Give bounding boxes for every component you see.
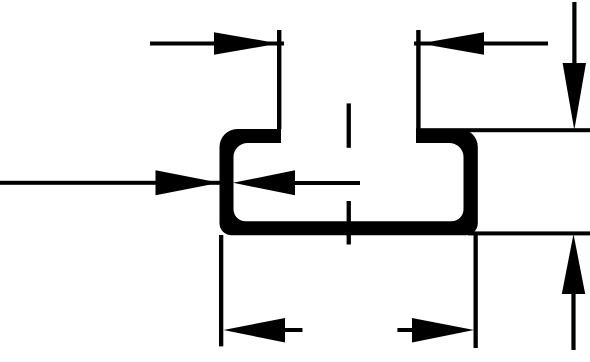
extension line bottom-right <box>474 235 478 348</box>
dimension line right vertical upper <box>572 2 576 64</box>
arrowhead bottom-left (points left) <box>224 318 286 343</box>
dimension tail bottom-right <box>397 328 412 332</box>
wall thickness dimension tail right <box>295 181 360 185</box>
arrowhead top-left (points right) <box>214 32 279 55</box>
dimension line top-right <box>414 42 548 46</box>
arrowhead right upper (points down) <box>563 63 586 130</box>
dimension tail bottom-left <box>285 328 303 332</box>
arrowhead at wall inner face (points left) <box>233 170 295 195</box>
arrowhead top-right (points left) <box>420 32 484 55</box>
extension line right lip <box>416 30 420 129</box>
C-profile cross-section <box>220 129 478 235</box>
bottom surface extension line <box>468 231 590 235</box>
extension line left lip <box>277 30 281 129</box>
centerline lower dash <box>347 201 351 245</box>
top surface extension line <box>416 128 590 132</box>
wall thickness dimension line left part <box>0 181 220 185</box>
arrowhead bottom-right (points right) <box>412 318 474 343</box>
arrowhead right lower (points up) <box>562 234 585 294</box>
centerline upper dash <box>347 103 351 147</box>
dimension line top-left <box>150 42 284 46</box>
extension line bottom-left <box>219 235 223 346</box>
arrowhead at wall outer face (points right) <box>156 170 220 195</box>
dimension line right vertical lower <box>571 293 575 350</box>
